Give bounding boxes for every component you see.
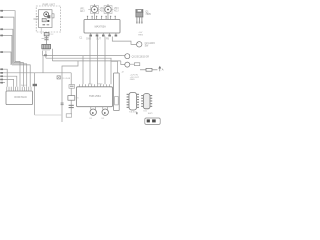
svg-text:ROM PACK: ROM PACK: [14, 96, 27, 99]
svg-text:ADJ: ADJ: [80, 10, 84, 13]
svg-text:7805: 7805: [145, 13, 151, 16]
svg-text:Q3 2SC1815 GR: Q3 2SC1815 GR: [132, 56, 150, 58]
svg-text:SW1: SW1: [148, 113, 154, 115]
svg-text:VCC: VCC: [88, 84, 93, 86]
svg-text:D0-D3: D0-D3: [21, 85, 28, 87]
svg-text:PWR UNIT: PWR UNIT: [43, 4, 56, 7]
svg-text:TMP-2564: TMP-2564: [89, 95, 101, 98]
svg-text:OUT: OUT: [96, 39, 101, 41]
svg-text:Q2 A1015: Q2 A1015: [145, 42, 156, 45]
svg-text:GND: GND: [130, 79, 135, 81]
svg-text:A: A: [162, 67, 164, 71]
svg-text:REG: REG: [138, 34, 143, 36]
svg-text:ADJ: ADJ: [114, 10, 119, 13]
svg-text:MAX763A: MAX763A: [95, 26, 107, 29]
svg-text:GND: GND: [98, 84, 103, 86]
svg-text:GND: GND: [86, 39, 91, 41]
svg-text:FB: FB: [106, 39, 109, 41]
svg-text:D1 4148: D1 4148: [62, 78, 71, 80]
